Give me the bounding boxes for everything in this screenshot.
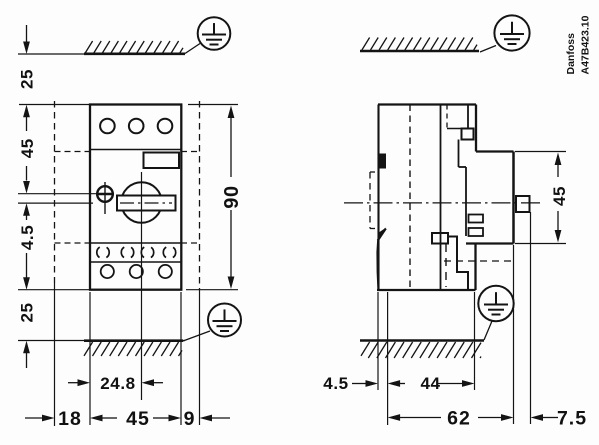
hatching of top-right wall: [361, 38, 477, 51]
extension line x474 below side view: [474, 292, 476, 390]
front view vertical centreline: [141, 172, 143, 400]
extension line x90 below front view: [89, 292, 91, 425]
side view right profile upper: [476, 105, 514, 244]
front view divider line below top terminals: [90, 149, 181, 151]
broken vertical x446 lower: [445, 244, 447, 287]
mounting wall bottom-right: [360, 339, 484, 342]
breaker front-view body outline: [90, 105, 181, 290]
dimension 25 (top clearance, left view): [18, 25, 37, 117]
svg-text:9: 9: [184, 408, 196, 430]
dashed stub y151 left: [55, 151, 91, 153]
internal vertical x440: [440, 105, 442, 291]
dimension 90 (overall height): [186, 105, 243, 290]
svg-text:45: 45: [126, 408, 150, 430]
top terminal circle 2: [129, 119, 144, 134]
hatching of top-left wall: [84, 41, 183, 53]
side view bottom edge: [377, 289, 476, 291]
rotary knob circle: [121, 182, 162, 223]
dashed stub x447 top: [446, 105, 448, 129]
bottom terminal circle 2: [130, 265, 143, 278]
DIN rail dashed outline: [370, 172, 378, 229]
side view top edge: [378, 103, 476, 105]
dashed stub y243 right: [181, 242, 200, 244]
terminal screw protrusion: [516, 196, 530, 212]
small terminal box top: [462, 129, 474, 140]
dashed mounting line right x199: [199, 101, 201, 425]
dimension 4.5 (rail offset): [323, 374, 378, 393]
extension line x530 right: [530, 212, 532, 424]
dimension 44: [388, 374, 475, 393]
dashed hidden line x410: [409, 105, 411, 291]
dashed auxiliary hole 4: [163, 246, 175, 258]
dashed auxiliary hole 1: [97, 246, 109, 258]
svg-text:Danfoss: Danfoss: [565, 33, 577, 75]
internal horizontal y128: [447, 128, 468, 130]
svg-text:18: 18: [58, 408, 82, 430]
bottom terminal circle 3: [159, 265, 172, 278]
svg-text:45: 45: [550, 186, 569, 206]
DIN clip hook: [377, 228, 386, 291]
side view left (front face) edge: [377, 105, 379, 291]
protective earth symbol bottom-left: [183, 304, 241, 342]
hatching of bottom-left wall: [84, 342, 182, 356]
dashed auxiliary hole 3: [141, 246, 153, 258]
svg-text:7.5: 7.5: [557, 408, 587, 430]
small screw box on centreline: [432, 233, 448, 244]
extension line latch axis y194: [18, 193, 114, 195]
protective earth symbol bottom-right: [478, 286, 513, 340]
svg-text:25: 25: [18, 69, 37, 89]
mounting wall top-left: [18, 53, 185, 55]
extension line x181 below front view: [180, 292, 182, 425]
hatching of bottom-right wall: [361, 342, 481, 358]
rotary knob handle bar: [117, 196, 176, 211]
extension line x378 below side view: [377, 292, 379, 390]
top terminal circle 1: [100, 119, 115, 134]
extension line knob axis y203: [18, 202, 93, 204]
dimension 18: [25, 408, 117, 430]
dashed auxiliary hole 2: [121, 246, 133, 258]
top terminal circle 3: [158, 119, 173, 134]
extension line x387 below side view: [387, 292, 389, 425]
dimension 25 (bottom clearance, left view): [18, 302, 37, 368]
svg-text:45: 45: [18, 138, 37, 158]
terminal box B: [469, 228, 484, 236]
side view rear step: [466, 244, 514, 291]
mounting wall bottom-left: [18, 340, 185, 342]
dashed mounting line left x54: [54, 101, 56, 426]
dimension 24.8: [68, 374, 163, 393]
dashed stub y243 left: [55, 242, 91, 244]
svg-text:A47B423.10: A47B423.10: [580, 15, 592, 74]
extension line x513 right: [513, 245, 515, 424]
dimension 9: [184, 408, 230, 430]
internal lower step polyline: [448, 237, 468, 291]
dimension 7.5: [531, 408, 588, 430]
svg-text:24.8: 24.8: [100, 374, 136, 393]
horizontal centreline (dash-dot): [344, 202, 543, 204]
dimension 45 (upper height, left view): [18, 117, 37, 194]
dashed hidden line y261: [444, 260, 514, 262]
test button crosshair: [96, 182, 114, 214]
dimension 4.5 (handle offset, left view): [18, 203, 37, 289]
bottom terminal circle 1: [101, 265, 114, 278]
protective earth symbol top-left: [185, 17, 230, 53]
internal step below top box: [459, 140, 467, 237]
mounting wall top-right: [360, 50, 479, 53]
svg-text:90: 90: [221, 185, 243, 208]
front view divider line y243: [90, 242, 181, 244]
dashed stub y151 right: [181, 151, 200, 153]
extension line device top (left): [19, 104, 90, 106]
dimension 62: [388, 408, 514, 430]
rating label window: [144, 153, 180, 169]
protective earth symbol top-right: [480, 15, 530, 52]
front view divider line y262: [90, 261, 181, 263]
extension line device bottom (left): [18, 289, 90, 291]
terminal box A: [469, 215, 484, 223]
internal vertical x468 top: [467, 105, 469, 129]
svg-text:4.5: 4.5: [18, 225, 37, 250]
dimension 45 (width): [126, 408, 181, 430]
svg-text:4.5: 4.5: [323, 374, 348, 393]
svg-text:25: 25: [18, 302, 37, 322]
svg-text:62: 62: [447, 408, 471, 430]
dimension 45 (side view height): [515, 152, 569, 244]
DIN clip notch (filled): [380, 154, 386, 168]
